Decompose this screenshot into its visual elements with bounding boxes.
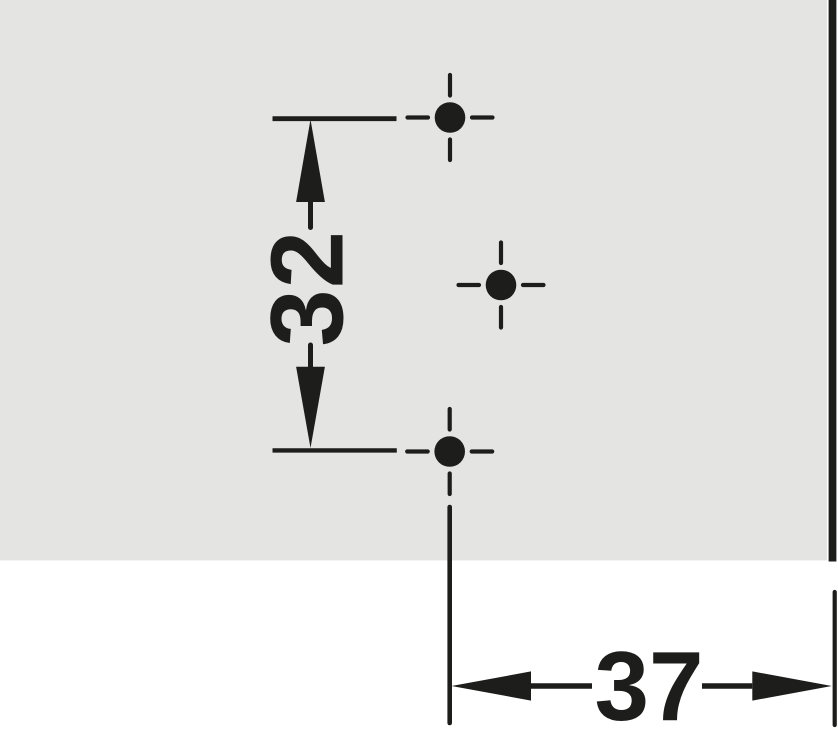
dimension 32 arrow up <box>296 120 325 203</box>
leader line down from bottom hole <box>447 507 452 723</box>
dimension 37 tail left <box>531 683 592 689</box>
panel front edge (thick black bar) <box>829 0 837 562</box>
hole top (drill point with centre cross) <box>408 75 493 160</box>
dimension 37 arrow left <box>452 671 532 700</box>
extension line top (through top hole centre) <box>273 116 397 121</box>
dimension 37 arrow right <box>752 671 832 700</box>
hole middle (drill point with centre cross) <box>459 243 544 328</box>
dimension 32 tail upper <box>308 202 313 228</box>
extension line bottom (through bottom hole centre) <box>273 448 397 452</box>
svg-text:37: 37 <box>594 631 703 730</box>
svg-text:32: 32 <box>250 230 365 347</box>
dimension 37 tail right <box>702 683 752 689</box>
extension line right (from panel edge) <box>833 592 837 725</box>
dimension 32 tail lower <box>308 345 313 367</box>
hole bottom (drill point with centre cross) <box>407 409 492 494</box>
panel (grey board surface) <box>0 0 827 560</box>
dimension 32 arrow down <box>296 367 325 448</box>
